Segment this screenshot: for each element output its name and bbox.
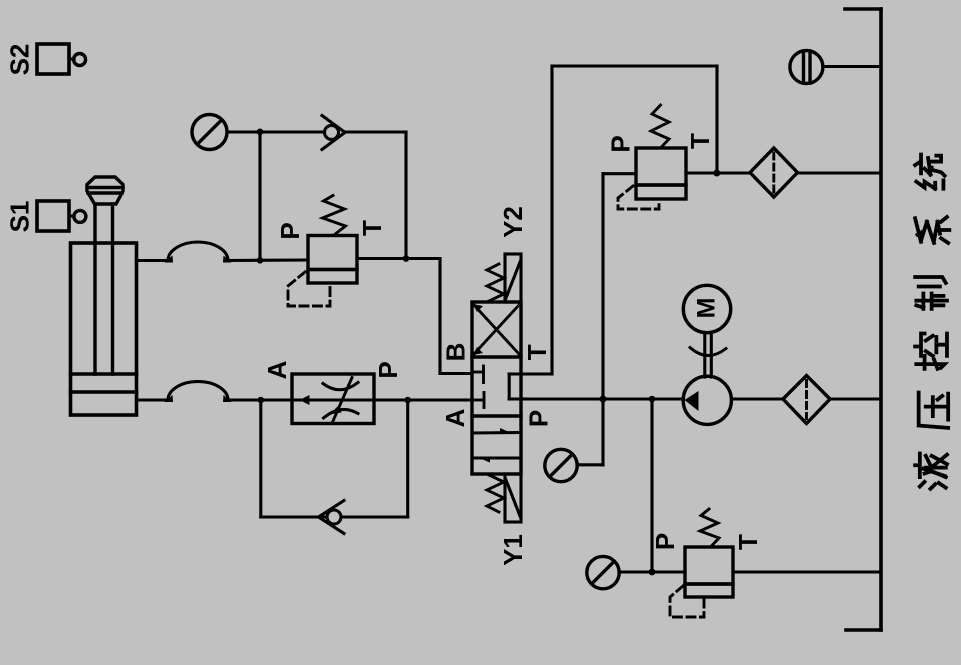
- wire cylinder top port with hose hump: [137, 242, 309, 263]
- node at reducer output: [403, 255, 410, 262]
- relief valve 1 body: [636, 148, 686, 199]
- wire check valve 1 to corner: [345, 130, 406, 133]
- title char 系: [915, 217, 949, 243]
- blocked port A centre: [472, 393, 484, 408]
- node main line gauge2: [600, 396, 607, 403]
- pressure gauge 2: [545, 449, 577, 481]
- tank: [845, 9, 881, 630]
- wire relief1 output: [686, 171, 750, 174]
- node relief2 line: [649, 569, 656, 576]
- node bypass right: [404, 397, 411, 404]
- wire main pressure line: [509, 397, 683, 400]
- wire relief2 to tank: [733, 570, 880, 573]
- spring return bottom: [487, 475, 504, 512]
- node bypass left: [258, 397, 265, 404]
- rotation arc: [690, 348, 726, 356]
- wire gauge 1 to node: [227, 130, 260, 133]
- wire cylinder bottom port with hose hump: [137, 382, 293, 403]
- svg-text:T: T: [522, 344, 552, 360]
- title char 统: [915, 154, 945, 188]
- node relief output: [713, 170, 720, 177]
- spring relief 2: [700, 509, 719, 547]
- motor shaft: [705, 333, 712, 378]
- parallel arrows bottom position: [473, 428, 522, 463]
- title char 液: [915, 453, 947, 488]
- check valve V2: [319, 501, 345, 534]
- wire node to check valve 1: [260, 130, 325, 133]
- solenoid Y1: [505, 474, 521, 522]
- relief valve 2 body: [685, 547, 733, 597]
- wire gauge3 to relief2: [619, 570, 685, 573]
- wire tank line right vertical: [715, 66, 718, 173]
- wire corner down to valve B port: [438, 259, 441, 374]
- node main line relief2: [649, 396, 656, 403]
- svg-text:P: P: [606, 135, 636, 152]
- limit switch S2: [37, 44, 86, 74]
- svg-text:A: A: [262, 360, 292, 379]
- svg-text:Y1: Y1: [498, 534, 528, 566]
- cylinder body: [71, 243, 137, 415]
- blocked port B centre: [472, 366, 484, 383]
- svg-text:T: T: [733, 534, 763, 550]
- P-T connection centre: [508, 374, 511, 399]
- wire tank line top: [552, 64, 717, 67]
- wire breather to tank: [823, 65, 880, 68]
- svg-text:A: A: [440, 408, 470, 427]
- wire to B port: [440, 372, 472, 375]
- dashed drain relief 1: [618, 186, 659, 209]
- wire bypass bottom left: [261, 515, 327, 518]
- svg-text:B: B: [441, 343, 471, 362]
- wire flow valve to directional valve A: [374, 398, 472, 401]
- wire filter1 to tank: [798, 171, 880, 174]
- svg-text:Y2: Y2: [498, 206, 528, 238]
- check valve V1: [322, 116, 345, 150]
- svg-text:P: P: [524, 410, 554, 427]
- wire T stub to tank line: [509, 372, 552, 375]
- dashed drain relief 2: [670, 586, 704, 617]
- wire bypass bottom right: [341, 515, 408, 518]
- pressure gauge 1: [192, 115, 227, 150]
- title char 制: [915, 277, 947, 309]
- wire relief1 input horizontal: [603, 172, 636, 175]
- filter 2: [783, 376, 830, 424]
- wire bypass right vertical: [406, 400, 409, 517]
- pressure gauge 3: [587, 556, 619, 588]
- flow control throttle arcs: [323, 383, 358, 419]
- wire vertical node to top port wire: [258, 132, 261, 260]
- pump: [683, 376, 731, 424]
- spring relief 1: [651, 105, 669, 148]
- wire filter2 to tank: [830, 397, 880, 400]
- cylinder piston rod: [95, 204, 113, 374]
- title char 控: [915, 333, 947, 368]
- filter 1: [750, 148, 798, 197]
- node gauge junction: [257, 129, 264, 136]
- flow control adjust diagonal: [330, 378, 353, 422]
- flow control arrow: [300, 395, 310, 405]
- svg-text:P: P: [373, 361, 403, 378]
- wire gauge 2 stub: [577, 463, 603, 466]
- svg-text:S1: S1: [5, 201, 35, 233]
- wire reducer output to corner: [357, 257, 440, 260]
- spring of reducing valve: [323, 196, 346, 236]
- electric motor M: [683, 285, 730, 332]
- wire relief2 riser: [650, 399, 653, 572]
- wire bypass left vertical: [259, 400, 262, 517]
- breather: [790, 51, 823, 84]
- flow control valve body: [292, 374, 374, 424]
- wire vertical corner down to reducer output: [404, 132, 407, 259]
- wire pump outlet: [732, 397, 784, 400]
- svg-text:P: P: [650, 533, 680, 550]
- svg-text:T: T: [357, 220, 387, 236]
- pressure reducing valve body: [308, 236, 357, 284]
- svg-text:S2: S2: [5, 44, 35, 76]
- svg-text:T: T: [685, 133, 715, 149]
- directional valve body: [472, 302, 521, 474]
- svg-text:M: M: [693, 298, 721, 319]
- node junction top port: [257, 257, 264, 264]
- wire tank line vertical: [550, 66, 553, 374]
- flow control through line: [292, 398, 374, 401]
- svg-text:P: P: [275, 222, 305, 239]
- ram head: [87, 177, 123, 204]
- spring return top: [487, 264, 504, 301]
- limit switch S1: [37, 201, 86, 231]
- wire relief1 input vertical: [601, 174, 604, 465]
- crossed arrows top position: [473, 304, 519, 355]
- title char 压: [919, 392, 949, 427]
- solenoid Y2: [505, 254, 521, 302]
- dashed drain of reducing valve: [288, 272, 330, 306]
